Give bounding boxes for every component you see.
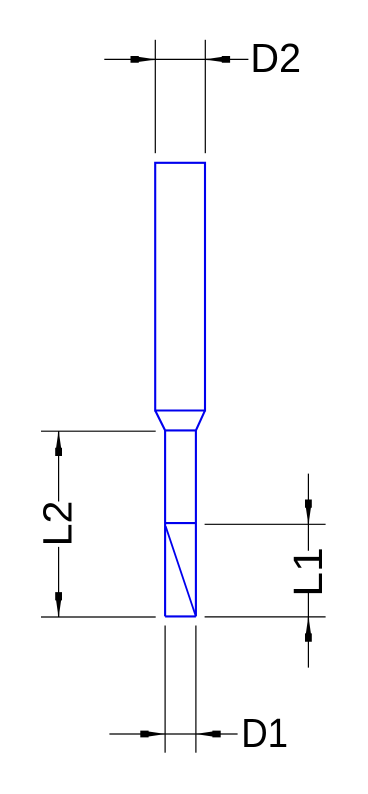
L2 dimension line (two segments around label)	[58, 431, 60, 617]
svg-text:L2: L2	[34, 501, 80, 547]
D2 dimension line	[104, 58, 248, 60]
D2 arrow right	[205, 56, 230, 63]
D1 arrow right	[196, 731, 221, 738]
D2 arrow left	[131, 56, 156, 63]
L2 arrow bottom	[55, 592, 62, 617]
D1 dimension line	[109, 733, 237, 735]
flute top divider line	[165, 522, 196, 524]
L1 dimension line (outside tails and inner segments around label)	[307, 474, 309, 668]
flute diagonal cutting edge	[166, 526, 196, 615]
svg-text:D2: D2	[250, 35, 301, 81]
L2 extension line bottom	[41, 616, 156, 618]
svg-text:D1: D1	[241, 710, 288, 756]
L1 extension line bottom	[205, 616, 326, 618]
D1 extension line right	[195, 626, 197, 753]
neck and flute body (blue)	[165, 430, 196, 616]
shank-to-neck chamfer (trapezoid sides + neck top line)	[155, 411, 205, 431]
L2 arrow top	[55, 431, 62, 456]
D1 extension line left	[164, 626, 166, 753]
L1 arrow bottom (outside, pointing up)	[305, 617, 312, 642]
L1 arrow top (outside, pointing down)	[305, 500, 312, 525]
D1 arrow left	[140, 731, 165, 738]
D2 extension line right	[204, 40, 206, 153]
L2 extension line top	[41, 430, 156, 432]
D2 extension line left	[154, 40, 156, 153]
svg-text:L1: L1	[285, 547, 331, 597]
tool shank (blue rectangle)	[155, 163, 205, 411]
L1 extension line top	[205, 523, 326, 525]
